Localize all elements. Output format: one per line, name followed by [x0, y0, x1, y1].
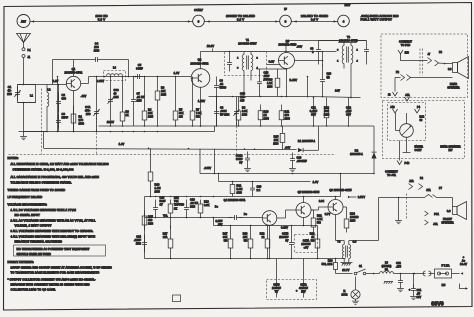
svg-text:ALL CAPACITANCE IN PICOFARADS,: ALL CAPACITANCE IN PICOFARADS, 400 VOLTS… [11, 175, 100, 179]
label 8.0 front [447, 210, 451, 213]
wire bus 97 [307, 76, 361, 99]
wire C1 bottom [18, 102, 36, 104]
dashed box fader inner [388, 103, 426, 141]
label REAR SPEAKER KIT [440, 146, 460, 153]
svg-text:.42V: .42V [81, 94, 87, 98]
svg-text:250: 250 [86, 112, 91, 116]
wire T1 in [229, 52, 231, 56]
svg-text:.275: .275 [396, 266, 402, 269]
svg-text:R7: R7 [196, 109, 200, 112]
svg-text:DUMMY ANTENNA:: DUMMY ANTENNA: [8, 260, 34, 264]
label .045V; wire riser 214 [204, 149, 215, 174]
svg-text:R8: R8 [242, 107, 246, 110]
node ANT generator point [17, 15, 30, 28]
svg-text:R22: R22 [420, 116, 425, 119]
label T2 [339, 35, 358, 43]
svg-text:2 ALL AC VOLTAGES MEASURED WI: 2 ALL AC VOLTAGES MEASURED WITH AN AC VT… [11, 219, 97, 223]
capacitor C22 [394, 262, 415, 292]
transistor Q2 [191, 69, 210, 88]
svg-text:60V: 60V [346, 113, 351, 117]
capacitor C14 [236, 152, 251, 172]
svg-text:.0064UF: .0064UF [297, 160, 308, 163]
svg-text:16V: 16V [417, 296, 422, 299]
svg-text:R5: R5 [179, 109, 183, 112]
label 262.5KC TO 400KC [301, 14, 328, 22]
svg-text:10%: 10% [148, 223, 154, 226]
svg-text:0.1UF: 0.1UF [215, 220, 222, 223]
svg-text:25V: 25V [218, 224, 223, 227]
label 1.9V [313, 180, 319, 184]
svg-text:6V: 6V [239, 162, 242, 165]
svg-text:8: 8 [285, 20, 287, 24]
svg-text:C11: C11 [311, 106, 316, 110]
svg-text:R19: R19 [243, 233, 248, 236]
svg-text:FADER: FADER [415, 146, 424, 149]
svg-text:10%: 10% [114, 96, 120, 99]
svg-text:NOTES:: NOTES: [8, 156, 19, 160]
svg-text:10%: 10% [273, 143, 279, 146]
svg-text:C8: C8 [220, 107, 224, 110]
wire J2B to plug [401, 54, 428, 61]
label Q1 [65, 67, 83, 75]
svg-text:L3: L3 [113, 66, 117, 70]
svg-text:2080055-1: 2080055-1 [350, 153, 363, 156]
connector J2B [398, 50, 409, 54]
capacitor C10 [257, 69, 270, 97]
label FRONT SPEAKER [441, 218, 453, 225]
svg-text:15K: 15K [243, 236, 248, 239]
wire IF to DET [291, 20, 337, 22]
wire switch to L5 [366, 273, 380, 275]
svg-text:1.9V: 1.9V [313, 180, 319, 184]
svg-text:2.2: 2.2 [257, 189, 261, 192]
wire 10.0V rail [201, 44, 337, 52]
svg-text:(8): (8) [327, 76, 330, 79]
label Q3 [279, 39, 303, 49]
labels Q1 voltages [81, 79, 105, 98]
capacitor C2 600 [56, 93, 67, 113]
label 68V0 drawing number [431, 302, 444, 308]
svg-text:8.0: 8.0 [447, 210, 451, 213]
resistor R1 270 [71, 106, 84, 132]
capacitor C17B can [272, 259, 281, 298]
svg-text:470-: 470- [85, 109, 91, 113]
wire Q3 emitter [257, 68, 288, 97]
svg-text:445: 445 [240, 100, 245, 103]
capacitor C23 [320, 60, 332, 98]
svg-text:C5: C5 [138, 63, 142, 67]
svg-text:04UF: 04UF [136, 67, 143, 71]
svg-text:J2B: J2B [405, 51, 410, 54]
svg-text:6V: 6V [160, 204, 163, 207]
connector J4A [405, 94, 411, 101]
svg-text:1.2K: 1.2K [267, 82, 273, 85]
svg-text:W500: W500 [220, 87, 227, 90]
svg-text:14.4V: 14.4V [460, 263, 467, 266]
svg-text:420: 420 [148, 219, 153, 222]
component R13 [324, 98, 330, 127]
capacitor C9 .02 [214, 77, 227, 127]
resistor R18 [198, 200, 209, 218]
wire wiper line [145, 217, 233, 219]
svg-text:C10: C10 [264, 72, 269, 75]
dashed tuning gang line [9, 154, 336, 156]
resistor R6 18K [155, 77, 167, 127]
svg-text:1.6V: 1.6V [119, 142, 125, 146]
component C17B lower [279, 226, 294, 259]
svg-text:R21: R21 [237, 185, 242, 188]
svg-text:J6A: J6A [433, 223, 438, 226]
svg-text:SPEAKER: SPEAKER [441, 222, 453, 225]
label Q5 [298, 191, 320, 194]
svg-text:+: + [409, 288, 411, 292]
svg-text:60V: 60V [311, 113, 316, 117]
label output note [361, 14, 399, 22]
svg-text:9.0 V: 9.0 V [311, 18, 318, 22]
svg-text:MEASURE WITH CURRENT METER IN: MEASURE WITH CURRENT METER IN SERIES WIT… [11, 283, 90, 287]
diode D2 [350, 126, 377, 174]
resistor R5 56K [173, 77, 184, 127]
capacitor C9 [310, 45, 321, 57]
svg-text:R4: R4 [148, 109, 152, 112]
svg-text:I.F FREQUENCY 262.5KC: I.F FREQUENCY 262.5KC [8, 195, 43, 199]
svg-text:.01 UF: .01 UF [137, 96, 145, 99]
connector J1 [22, 55, 31, 59]
svg-text:R17: R17 [223, 233, 228, 236]
svg-text:CONNECT: CONNECT [399, 41, 412, 44]
capacitor C3 [56, 112, 68, 129]
svg-text:.05: .05 [417, 293, 421, 296]
svg-text:R21: R21 [317, 215, 322, 218]
svg-text:R1: R1 [79, 115, 83, 119]
wire Q4 to Q5 [277, 210, 296, 218]
svg-text:R9: R9 [269, 79, 273, 82]
wire T3 to front speaker [349, 198, 425, 245]
svg-text:1.2M: 1.2M [155, 186, 161, 190]
label CONNECT TO J4A [385, 171, 398, 178]
svg-text:TO P2B: TO P2B [401, 44, 411, 47]
labels Q2; wire Q2 emitter [174, 71, 206, 127]
svg-text:NO SIGNAL INPUT: NO SIGNAL INPUT [15, 213, 41, 217]
potentiometer fader control [396, 113, 414, 137]
arrow return [460, 284, 469, 290]
wire bus A [99, 125, 338, 127]
svg-text:L2: L2 [47, 88, 51, 92]
label B45V [290, 78, 298, 82]
wire bus B [24, 126, 215, 132]
label REAR SPEAKER [447, 83, 459, 90]
svg-text:C4: C4 [95, 42, 99, 46]
svg-text:14V: 14V [335, 89, 340, 93]
svg-text:45-: 45- [7, 89, 11, 93]
svg-text:REAR SPEAKER: REAR SPEAKER [440, 146, 460, 149]
svg-text:C17B: C17B [273, 285, 280, 287]
diode D1 [298, 126, 319, 152]
capacitor C6B trimmer [234, 93, 246, 127]
connector P1 [22, 48, 31, 52]
svg-text:ANT: ANT [21, 21, 27, 24]
svg-text:TO TRANSISTOR BASE ELEMENTS FO: TO TRANSISTOR BASE ELEMENTS FOR GAIN MEA… [11, 271, 100, 275]
wire riser 340 [340, 174, 342, 197]
svg-text:2098010-0702: 2098010-0702 [191, 61, 209, 65]
ground under tuner [19, 103, 48, 140]
dashed box filter capacitors [267, 280, 317, 300]
label 3.84 [319, 200, 325, 203]
svg-text:OTHERWISE STATED. K=1,000, M=1: OTHERWISE STATED. K=1,000, M=1,000,000 [13, 168, 74, 172]
svg-text:1K: 1K [311, 236, 314, 239]
label CONNECT TO P2B [399, 41, 412, 48]
antenna [17, 34, 31, 48]
dashed box rear speaker connect [381, 34, 468, 98]
svg-text:TAPPED: TAPPED [174, 204, 184, 207]
svg-text:VOLTAGE MEASUREMENTS:: VOLTAGE MEASUREMENTS: [8, 203, 48, 207]
wire T2 top [319, 40, 367, 65]
svg-text:C17A: C17A [303, 240, 310, 243]
transistor Q1 [66, 76, 80, 90]
svg-text:6V: 6V [275, 292, 278, 294]
svg-text:10%: 10% [94, 49, 100, 53]
svg-text:FRONT: FRONT [443, 218, 452, 221]
svg-text:CONNECT: CONNECT [385, 171, 398, 174]
component R19 lower [243, 226, 253, 259]
ground front speaker line [395, 197, 402, 224]
svg-text:10%: 10% [242, 114, 248, 117]
svg-text:10%: 10% [350, 220, 356, 223]
svg-text:P4B: P4B [405, 162, 410, 165]
wire bottom bus [145, 258, 346, 260]
capacitor C7 [131, 77, 145, 127]
capacitor C21 [409, 273, 422, 300]
transistor Q5 [296, 203, 311, 218]
wire Q3 collector rail 40 [286, 41, 367, 53]
component R22 lower [260, 226, 270, 259]
svg-text:B.45V: B.45V [290, 78, 298, 82]
svg-text:85PF: 85PF [62, 116, 69, 120]
svg-text:A+: A+ [462, 260, 466, 263]
connectors J2A P2 [409, 177, 424, 190]
svg-text:1K: 1K [174, 207, 177, 210]
wire Q3 out [295, 52, 323, 61]
svg-text:8.0: 8.0 [448, 69, 452, 71]
svg-text:C16: C16 [190, 199, 195, 202]
wire base divider [58, 84, 60, 132]
label VS [163, 206, 218, 218]
transistor Q3 [279, 53, 295, 69]
svg-text:3.3K: 3.3K [204, 204, 210, 207]
dashed box rear speaker kit [383, 101, 465, 159]
svg-text:ALL RESISTANCE IN OHMS, 1/2 WA: ALL RESISTANCE IN OHMS, 1/2 WATT AND ±10… [11, 162, 109, 166]
svg-text:VOLUME, 1 WATT OUTPUT: VOLUME, 1 WATT OUTPUT [15, 224, 52, 228]
wire main bus converter [81, 76, 192, 84]
svg-text:J4A: J4A [405, 94, 410, 97]
capacitor C4A variable [85, 85, 100, 155]
label .94V [285, 146, 291, 150]
svg-text:C6C: C6C [114, 89, 119, 92]
label Q4 [224, 199, 246, 202]
connector P3 [423, 271, 435, 276]
svg-text:C9: C9 [220, 80, 224, 83]
svg-text:4: 4 [343, 20, 345, 24]
svg-text:2.57V: 2.57V [358, 195, 365, 199]
svg-text:Q4 2092608-0701: Q4 2092608-0701 [224, 199, 246, 202]
svg-text:C7: C7 [137, 93, 141, 96]
ground T3 [342, 264, 351, 266]
svg-text:9.2V: 9.2V [269, 60, 275, 64]
svg-text:1000UF: 1000UF [272, 288, 281, 290]
svg-text:COLLECTOR LEAD TO Q6 CASE.: COLLECTOR LEAD TO Q6 CASE. [11, 288, 56, 292]
svg-text:UF 10%: UF 10% [220, 114, 230, 117]
switch S1 [354, 265, 366, 275]
resistor R7 7.2K [190, 77, 201, 127]
svg-text:DET: DET [344, 3, 350, 7]
svg-text:F.5: F.5 [442, 284, 446, 287]
svg-text:10%: 10% [161, 94, 167, 97]
svg-text:R6: R6 [161, 87, 165, 90]
svg-text:10.0V: 10.0V [207, 44, 214, 48]
capacitor C4 feedback [53, 42, 129, 85]
svg-text:1K: 1K [126, 114, 129, 117]
capacitor C24 [364, 45, 369, 57]
front speaker [453, 202, 467, 220]
svg-text:R18: R18 [204, 201, 209, 204]
capacitor C18 [215, 213, 262, 227]
svg-text:56K: 56K [179, 112, 184, 115]
connectors J4B P4 [390, 106, 420, 113]
resistor R3 1K [120, 77, 129, 127]
resistor R24 [343, 207, 359, 233]
svg-text:IF: IF [284, 7, 287, 11]
svg-text:C6B: C6B [240, 93, 245, 96]
label FADER CONT [403, 137, 424, 152]
svg-text:10%: 10% [79, 122, 85, 126]
wire T2 secondary down [350, 69, 352, 99]
dashed gang link C6B [236, 119, 238, 155]
svg-text:1K: 1K [264, 113, 268, 117]
svg-text:10%: 10% [190, 206, 196, 209]
svg-text:T3: T3 [337, 240, 341, 244]
svg-text:15%: 15% [136, 243, 142, 246]
svg-text:10%: 10% [285, 117, 291, 121]
wire Q5 emitter [303, 218, 305, 227]
label R26 560 [322, 260, 334, 267]
capacitor C17A can [295, 235, 318, 253]
svg-text:T1: T1 [246, 38, 250, 42]
lamp I1 1892 [342, 277, 361, 305]
svg-text:25A: 25A [163, 236, 168, 239]
svg-text:SHOULD EVER BE USED: SHOULD EVER BE USED [17, 252, 51, 256]
capacitor C20 [250, 182, 262, 197]
svg-text:CONV: CONV [194, 8, 203, 12]
capacitor C8 [214, 97, 230, 127]
inductor L5 [380, 262, 394, 284]
node CONV injection point 6 [193, 8, 205, 27]
svg-text:R16: R16 [174, 197, 179, 200]
label Q2 [191, 58, 209, 66]
svg-text:R11: R11 [285, 110, 290, 114]
svg-text:10%: 10% [148, 116, 154, 119]
svg-text:.02: .02 [220, 83, 224, 86]
svg-text:C21: C21 [417, 289, 422, 292]
svg-text:100MC: 100MC [350, 216, 359, 219]
labels P6A J6A [425, 211, 440, 226]
svg-text:REAR: REAR [450, 83, 457, 86]
svg-text:.1UF: .1UF [346, 109, 352, 113]
wire C1 top [18, 84, 48, 86]
wire Q2 collector [200, 52, 202, 69]
warning box no ungrounded test equipment [14, 245, 106, 256]
svg-text:15K: 15K [148, 112, 153, 115]
wire C4A to bus [96, 76, 98, 85]
svg-text:10%: 10% [137, 100, 143, 103]
label 2.57V [348, 195, 365, 199]
svg-text:C12: C12 [346, 106, 351, 110]
svg-text:TOLERANCE UNLESS OTHERWISE STA: TOLERANCE UNLESS OTHERWISE STATED. [11, 181, 72, 185]
svg-text:FOR 1 WATT OUTPUT: FOR 1 WATT OUTPUT [361, 18, 393, 22]
svg-text:V.S.: V.S. [163, 215, 168, 218]
capacitor C5 [135, 63, 144, 79]
resistor R4 15K [142, 77, 154, 127]
capacitor C15 [153, 197, 166, 218]
svg-text:1892: 1892 [342, 294, 348, 297]
svg-text:3.9K: 3.9K [242, 110, 248, 113]
svg-text:D1 2080055-1: D1 2080055-1 [298, 139, 316, 143]
label T1 [238, 38, 257, 46]
svg-text:0.25V: 0.25V [281, 227, 288, 230]
svg-text:CC14: CC14 [236, 155, 243, 158]
svg-text:C15: C15 [160, 197, 165, 200]
node DET injection point 4 [338, 3, 351, 27]
svg-text:5%: 5% [317, 222, 321, 225]
wire antenna to tuner [23, 58, 25, 85]
chassis symbol square [173, 295, 181, 302]
svg-text:1 ALL DC VOLTAGES MEASURED WI: 1 ALL DC VOLTAGES MEASURED WITH A VTVM [11, 208, 77, 212]
svg-text:6V: 6V [285, 240, 288, 243]
wire speaker return [395, 72, 453, 92]
svg-text:560, 10%: 560, 10% [322, 263, 334, 266]
svg-text:3.84: 3.84 [319, 200, 325, 203]
svg-text:4.0: 4.0 [353, 240, 357, 244]
svg-text:C3: C3 [62, 112, 66, 116]
svg-text:R26: R26 [328, 260, 333, 263]
svg-text:1000UF: 1000UF [279, 236, 289, 239]
svg-text:10%: 10% [324, 113, 330, 117]
connectors J7 P2 rear [428, 52, 453, 66]
label 0.25V [281, 227, 288, 230]
wire bus 225 [214, 218, 318, 227]
fuse F5 [435, 265, 452, 288]
svg-text:C20: C20 [257, 186, 262, 189]
svg-text:R13: R13 [324, 106, 329, 110]
wire Q6 emitter [335, 215, 337, 241]
svg-text:C13: C13 [297, 157, 302, 160]
wire bus 96 [209, 96, 308, 98]
svg-text:R17: R17 [163, 233, 168, 236]
wire CONV to IF [204, 20, 279, 22]
svg-text:.84V: .84V [297, 45, 303, 49]
svg-text:C1: C1 [8, 85, 12, 89]
transformer T1 [227, 52, 259, 97]
svg-text:10%: 10% [264, 117, 270, 121]
svg-text:C4A: C4A [85, 105, 91, 109]
resistor R26; wire to switch [334, 259, 353, 274]
svg-text:.045V: .045V [204, 166, 211, 170]
inductor L3 oscillator coil [104, 66, 126, 81]
svg-text:Q2: Q2 [198, 58, 202, 62]
svg-text:R10: R10 [264, 110, 269, 114]
svg-text:4.7K: 4.7K [317, 218, 323, 221]
svg-text:270: 270 [79, 118, 84, 122]
wire bus A right [338, 125, 375, 127]
